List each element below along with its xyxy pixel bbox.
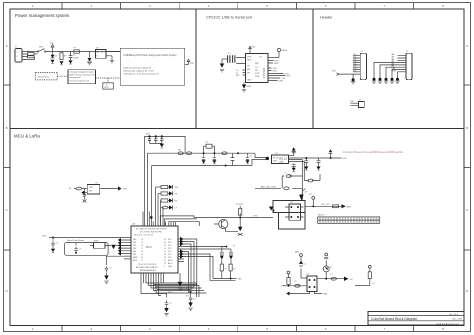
capacitor C19	[188, 291, 196, 310]
svg-text:14: 14	[141, 239, 143, 241]
svg-text:AVCC: AVCC	[168, 291, 174, 294]
zone letters left	[6, 44, 8, 293]
fuse F1	[27, 51, 34, 58]
svg-text:AREF: AREF	[133, 256, 138, 259]
svg-text:management: management	[70, 76, 82, 79]
wire U5 left lower pins	[243, 70, 246, 75]
svg-text:AVCC: AVCC	[133, 259, 138, 262]
svg-text:ANT_SW_CTRL: ANT_SW_CTRL	[261, 185, 277, 188]
crystal sub loop	[203, 142, 216, 154]
solar panel block	[35, 73, 57, 80]
arrow into RF block	[299, 191, 303, 201]
connector J1	[15, 47, 23, 63]
capacitor C2 100uF	[68, 52, 79, 65]
small circuit U9	[69, 183, 128, 203]
svg-text:DSR: DSR	[279, 80, 284, 82]
svg-text:B: B	[466, 126, 468, 130]
diode D2	[87, 52, 92, 66]
svg-text:FE1.1S: FE1.1S	[279, 158, 287, 161]
svg-text:RF_OUT: RF_OUT	[322, 204, 331, 206]
svg-text:18: 18	[141, 251, 143, 253]
svg-text:R? 10K: R? 10K	[236, 204, 244, 206]
svg-text:PC4: PC4	[168, 251, 171, 253]
svg-text:USB/Battery/5V0 Power Supply A: USB/Battery/5V0 Power Supply Auto Switch…	[124, 54, 177, 57]
diode D5	[269, 207, 274, 212]
pin labels left	[236, 70, 240, 77]
svg-text:RF_IN: RF_IN	[273, 157, 279, 159]
section box: Power management system	[10, 9, 196, 129]
wire LED bus verticals	[156, 187, 164, 226]
wire MCU left pins with arrows	[118, 238, 131, 259]
node black junction	[266, 157, 269, 160]
power wire into J2	[332, 71, 360, 76]
svg-text:RST: RST	[43, 236, 48, 238]
svg-text:RST: RST	[255, 63, 260, 65]
svg-text:RTS: RTS	[255, 76, 260, 78]
MCU U8	[131, 223, 178, 273]
svg-text:GND: GND	[247, 86, 252, 88]
section box: Header	[313, 9, 464, 129]
MCU signal block U4	[103, 83, 114, 89]
RF switch IC U7	[285, 202, 304, 220]
power flag end of rail	[319, 149, 348, 160]
svg-text:PC5: PC5	[168, 254, 171, 256]
svg-text:Power management system: Power management system	[15, 13, 70, 18]
LED row 2	[158, 191, 178, 195]
ferrite bead FB7	[331, 274, 337, 280]
wire reg output	[317, 278, 344, 280]
svg-text:PB4: PB4	[133, 251, 136, 253]
node on wire B	[225, 165, 227, 167]
power flag +5V	[50, 43, 55, 52]
svg-text:Mech?: Mech?	[318, 215, 325, 217]
svg-text:25: 25	[164, 245, 166, 247]
svg-text:28: 28	[164, 254, 166, 256]
svg-text:Solar Panel: Solar Panel	[38, 75, 49, 78]
diode D8 circle	[323, 253, 333, 279]
svg-text:Vout Put range 5V / 1A: Vout Put range 5V / 1A	[70, 79, 90, 82]
svg-text:MISO MOSI SCK: MISO MOSI SCK	[180, 289, 195, 291]
ground U1 aux	[110, 61, 115, 63]
wire step A to radio	[148, 153, 268, 226]
svg-text:Header: Header	[320, 16, 333, 20]
RF shield bar	[318, 215, 380, 224]
title block	[368, 312, 464, 326]
capacitor C11 with gnd	[212, 153, 216, 164]
svg-text:Kicad E.D.A. kicad 5.1.9: Kicad E.D.A. kicad 5.1.9	[436, 322, 459, 325]
fuse F2 on rail	[74, 48, 80, 54]
wire radio lower loop	[282, 160, 304, 189]
svg-text:PC1: PC1	[168, 242, 171, 244]
LED row 3	[161, 198, 179, 202]
svg-text:23: 23	[164, 239, 166, 241]
svg-text:DTR: DTR	[255, 73, 260, 75]
svg-text:17: 17	[141, 248, 143, 250]
svg-text:PC6: PC6	[168, 257, 171, 259]
capacitor C1	[59, 52, 67, 65]
svg-text:ANT: ANT	[347, 206, 352, 209]
svg-text:ADC0 ADC1 ADC2 SDA SCL: ADC0 ADC1 ADC2 SDA SCL	[136, 266, 158, 269]
svg-text:3V3: 3V3	[89, 191, 92, 193]
svg-text:Reset Push Button: Reset Push Button	[67, 239, 85, 242]
switch SW1	[37, 47, 46, 53]
antenna arrow	[342, 204, 352, 208]
connector J2	[360, 51, 366, 80]
ground arrow MCU bottom	[178, 273, 183, 290]
capacitor C14	[289, 158, 309, 170]
connector J3	[406, 51, 412, 80]
svg-text:PC2: PC2	[168, 245, 171, 247]
wire main ctrl line	[194, 217, 273, 219]
LED row 4	[161, 205, 177, 209]
svg-text:MCU: MCU	[146, 246, 152, 249]
wire bottom fan	[146, 283, 207, 298]
wire J3 pins	[392, 53, 406, 72]
diode D6	[238, 218, 243, 236]
svg-text:MCU: MCU	[105, 87, 110, 89]
wire J2 pins	[353, 54, 360, 72]
svg-text:PB1: PB1	[133, 242, 136, 244]
svg-text:VBUS: VBUS	[282, 50, 288, 52]
ferrite bead FB1	[178, 150, 183, 155]
diode D7	[110, 245, 131, 249]
capacitor C22 right	[355, 265, 376, 285]
svg-text:VIN region 3 - 5.5V, Recommend: VIN region 3 - 5.5V, Recommend 5.0V	[124, 73, 160, 76]
svg-text:CP2102: CP2102	[262, 67, 266, 78]
wire rst to MCU	[49, 236, 131, 238]
svg-text:USB nominal input voltage 5V: USB nominal input voltage 5V	[124, 67, 152, 70]
svg-text:ADC7: ADC7	[168, 262, 173, 265]
wire RF out	[305, 204, 342, 207]
switch J4	[350, 100, 364, 108]
capacitor C16	[51, 236, 59, 252]
regulator U10	[307, 274, 318, 292]
svg-text:ATMEGA328P-AU: ATMEGA328P-AU	[140, 269, 156, 272]
capacitor C12 with gnd	[245, 153, 253, 164]
radio IC U6	[272, 153, 289, 164]
svg-text:26: 26	[164, 248, 166, 250]
resistor R2	[236, 204, 244, 218]
wire U5 right pins with labels	[268, 60, 291, 82]
svg-text:C: C	[6, 208, 8, 212]
wire crystal feed	[178, 246, 236, 250]
regulator U1	[96, 47, 107, 58]
capacitor C24 between rails	[231, 153, 235, 165]
svg-text:Important! Please fix the seal: Important! Please fix the seal BPW anten…	[343, 151, 403, 154]
wire reg bottom	[286, 292, 328, 296]
wire MCU right pins to bus	[153, 237, 236, 292]
svg-text:CubeSat Board Block Diagram: CubeSat Board Block Diagram	[371, 317, 417, 321]
capacitor C3 C4	[222, 53, 246, 64]
svg-text:PB5: PB5	[133, 254, 136, 256]
ground at U5 bottom	[242, 83, 252, 92]
svg-text:D: D	[6, 289, 8, 293]
ground J2	[351, 74, 356, 84]
arrow out	[344, 277, 353, 282]
svg-text:GND: GND	[323, 294, 328, 296]
svg-text:D: D	[466, 289, 468, 293]
charge management block U3	[68, 70, 95, 84]
svg-text:ADC6: ADC6	[168, 259, 173, 262]
wire to antenna switch	[304, 174, 320, 182]
svg-text:XT1 XT2 PD5 PD6 PD7 PB6: XT1 XT2 PD5 PD6 PD7 PB6	[140, 232, 162, 234]
svg-text:19: 19	[141, 254, 143, 256]
svg-text:A: A	[6, 44, 8, 48]
wire main 5V rail	[46, 51, 120, 53]
svg-text:Battery input voltage 3.6V - 4: Battery input voltage 3.6V - 4.2V	[124, 70, 155, 73]
svg-text:19 20 21 22 23 24 25 26: 19 20 21 22 23 24 25 26	[138, 264, 156, 266]
frame zone ticks top	[62, 3, 414, 10]
power flag above radio	[289, 147, 296, 155]
svg-text:PC0: PC0	[168, 239, 171, 241]
svg-text:RXD: RXD	[273, 71, 278, 73]
antenna stub	[310, 194, 315, 206]
svg-text:MCU & LoRa: MCU & LoRa	[14, 134, 40, 139]
svg-text:RTS: RTS	[287, 75, 292, 77]
svg-text:VCC: VCC	[343, 158, 348, 160]
LED row 1	[156, 185, 180, 189]
svg-text:21: 21	[141, 260, 143, 262]
ferrite bead FB5	[284, 187, 289, 190]
push button SW2	[90, 241, 110, 249]
transistor Q1	[302, 176, 308, 201]
wire top power loop	[145, 136, 255, 226]
svg-text:15: 15	[141, 242, 143, 244]
power flag right top	[268, 48, 288, 57]
zone numbers bottom	[32, 327, 444, 331]
svg-text:LM??: LM??	[89, 187, 94, 189]
svg-text:PB2: PB2	[133, 245, 136, 247]
crystal Y1 circuit	[213, 247, 242, 281]
svg-text:Charging management signal: Charging management signal	[70, 71, 95, 74]
section box: MCU & LoRa	[10, 129, 464, 326]
capacitor C23 dc block	[333, 205, 339, 208]
svg-text:19: 19	[164, 260, 166, 262]
section box: CP2102 USB to Serial port	[196, 9, 313, 129]
svg-text:3: 3	[164, 266, 165, 268]
wire fuse to switch	[34, 54, 38, 60]
svg-text:A: A	[466, 44, 468, 48]
svg-text:29: 29	[164, 257, 166, 259]
node dot	[150, 216, 153, 219]
diode D3 with ground	[220, 59, 225, 72]
wire dashed charger to block	[95, 78, 120, 83]
wire connector pins	[22, 52, 38, 60]
svg-text:PB0: PB0	[133, 239, 136, 241]
ground arrow under cap bank	[160, 144, 164, 148]
wire U1 out to block	[106, 52, 120, 61]
ferrite bead FB3	[222, 152, 239, 155]
svg-text:PB3: PB3	[133, 248, 136, 250]
svg-text:C: C	[466, 208, 468, 212]
RF switch block top	[273, 201, 305, 213]
reset button enclosure	[65, 239, 109, 255]
svg-text:OUT: OUT	[123, 189, 128, 191]
svg-text:22: 22	[164, 263, 166, 265]
wire MCU bottom pins	[141, 273, 164, 283]
node	[325, 278, 327, 280]
capacitor C10 with gnd	[202, 153, 206, 164]
capacitor C18 AREF	[104, 256, 131, 283]
svg-text:30 31 32 1 2 5 6 7 8 9 10: 30 31 32 1 2 5 6 7 8 9 10	[134, 235, 153, 237]
svg-text:B: B	[6, 126, 8, 130]
IC U5 CP2102	[246, 54, 269, 83]
capacitor bank C5 C6 C7	[146, 133, 163, 143]
svg-text:100uF: 100uF	[73, 57, 80, 59]
svg-text:R?: R?	[225, 269, 227, 271]
svg-text:GND: GND	[247, 80, 252, 82]
capacitor C15	[305, 157, 320, 170]
svg-text:USB: USB	[279, 162, 284, 164]
wire SPI label line	[255, 185, 302, 188]
power flag 3V3 left	[281, 271, 290, 287]
zone numbers top	[32, 4, 444, 8]
frame zone ticks right	[464, 85, 471, 250]
svg-text:PC3: PC3	[168, 248, 171, 250]
ferrite bead FB4	[285, 173, 292, 178]
power supply block U2	[120, 48, 185, 85]
capacitor C17	[74, 243, 82, 254]
svg-text:R?: R?	[233, 269, 235, 271]
svg-text:SUS: SUS	[274, 63, 279, 65]
power flag top of U5	[249, 46, 256, 53]
svg-text:Date: 2021: Date: 2021	[452, 318, 463, 321]
frame zone ticks left	[4, 85, 11, 250]
svg-text:VCC GND VCC PD0 PD1 PD2 PD3 PD: VCC GND VCC PD0 PD1 PD2 PD3 PD4	[136, 229, 167, 231]
ferrite bead FB2	[186, 152, 191, 155]
svg-text:VDD: VDD	[247, 57, 252, 59]
capacitor C21 polarized	[295, 251, 307, 279]
svg-text:REG: REG	[247, 60, 252, 62]
svg-text:CTRL: CTRL	[253, 216, 258, 218]
svg-text:24: 24	[164, 242, 166, 244]
svg-text:16: 16	[141, 245, 143, 247]
power flag +5V0 out	[185, 59, 195, 65]
wire loops from MCU top to ctrl	[160, 216, 199, 226]
frame zone ticks bottom	[62, 326, 414, 332]
capacitor C20	[141, 283, 173, 316]
svg-text:CP2102: USB to Serial port: CP2102: USB to Serial port	[206, 16, 253, 20]
ground drops J3	[372, 63, 400, 84]
transistor Q2	[214, 218, 238, 232]
RF switch block bottom	[279, 213, 306, 230]
svg-text:27: 27	[164, 251, 166, 253]
wire MCU top pins	[143, 212, 176, 227]
ferrite bead FB6	[288, 281, 300, 287]
svg-text:20: 20	[141, 257, 143, 259]
node junctions on loop	[148, 135, 163, 137]
svg-text:DM: DM	[247, 69, 251, 71]
svg-text:GND: GND	[238, 279, 243, 281]
svg-text:Rev: V1.0: Rev: V1.0	[449, 314, 459, 316]
zone letters right	[466, 44, 468, 293]
diode D1 TVS	[50, 52, 58, 64]
wire dashed solar to charger	[57, 75, 68, 77]
capacitor C13 below radio	[292, 164, 296, 172]
wire reg input	[283, 285, 307, 287]
